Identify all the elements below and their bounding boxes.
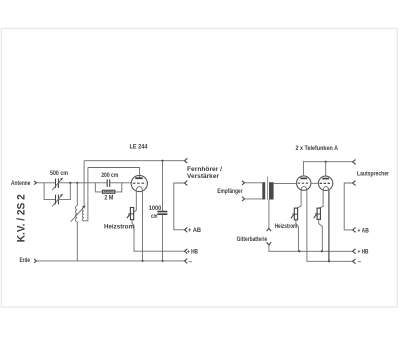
terminal anode right <box>353 160 356 165</box>
svg-text:Antenne: Antenne <box>11 180 31 187</box>
terminal +AB right <box>353 228 356 233</box>
svg-text:Fernhörer /: Fernhörer / <box>187 166 222 173</box>
wire rheostat to HB terminal <box>132 220 185 252</box>
wire grid-leak branch <box>95 183 122 192</box>
wire tube2 filament left leg <box>297 190 302 208</box>
wire secondary to grid <box>274 182 297 184</box>
inductor L2 reaction coil <box>82 207 84 221</box>
svg-text:200 cm: 200 cm <box>101 172 118 179</box>
svg-text:–: – <box>358 258 362 265</box>
svg-text:+ AB: + AB <box>188 227 201 234</box>
svg-text:K.V. / 2S 2: K.V. / 2S 2 <box>16 194 28 242</box>
terminal grid battery lower <box>267 242 272 245</box>
transformer T1 core <box>267 177 269 200</box>
wire phones bracket <box>174 183 185 230</box>
wire tube3 filament left leg <box>319 190 323 208</box>
svg-text:Heizstrom: Heizstrom <box>275 223 298 230</box>
svg-text:LE 244: LE 244 <box>130 143 148 150</box>
tube V2 filament <box>301 186 307 190</box>
wire coil L1 upper <box>76 183 78 206</box>
wire branch right up <box>58 183 70 200</box>
svg-text:Erde: Erde <box>20 257 31 264</box>
svg-text:500 cm: 500 cm <box>50 170 68 177</box>
tube V1 envelope <box>131 175 147 191</box>
capacitor C1 variable arrow <box>52 178 62 190</box>
wire earth minus line <box>37 260 185 262</box>
wire tube2 filament right leg <box>307 190 353 261</box>
transformer T1 primary <box>262 182 265 199</box>
wire rheostat R4 to HB line <box>319 219 323 251</box>
svg-text:Empfänger: Empfänger <box>217 188 243 195</box>
svg-text:1000: 1000 <box>149 205 162 212</box>
terminal phones bottom <box>185 181 188 186</box>
wire outer plate line to terminal <box>84 160 184 162</box>
wire antenna main to C1 <box>37 182 56 184</box>
svg-text:Lautsprecher: Lautsprecher <box>357 170 389 177</box>
terminal receiver top <box>242 181 245 185</box>
terminal earth arrow <box>34 259 36 263</box>
tube V1 anode <box>135 177 142 179</box>
capacitor C4 1000cm plates <box>157 212 167 215</box>
wire filament left leg <box>134 190 137 212</box>
terminal minus left <box>185 259 188 264</box>
svg-text:–: – <box>189 258 193 265</box>
terminal phones top <box>185 158 188 163</box>
node R3-HB <box>298 250 300 252</box>
wire tube2-tube3 grid link <box>311 182 319 184</box>
wire blocking cap upper <box>162 161 164 212</box>
terminal +HB right <box>353 249 356 254</box>
terminal receiver bottom <box>242 197 245 201</box>
capacitor C2 variable arrow <box>52 194 62 206</box>
resistor R1 2M <box>102 190 115 193</box>
wire anode top line right <box>303 162 352 176</box>
terminal antenna arrow <box>34 181 36 185</box>
terminal grid battery upper <box>267 228 272 231</box>
tube V2 envelope <box>297 176 311 190</box>
tube V3 grid <box>320 182 332 184</box>
svg-text:2 x Telefunken A: 2 x Telefunken A <box>296 145 339 152</box>
tube V2 grid <box>298 182 310 184</box>
node tube3-minus <box>328 260 330 262</box>
svg-text:Heizstrom: Heizstrom <box>104 223 134 230</box>
svg-text:Gitterbatterie: Gitterbatterie <box>237 236 268 243</box>
terminal +AB left <box>185 227 188 232</box>
wire speaker bracket <box>344 183 352 230</box>
wire receiver bottom <box>245 198 263 200</box>
wire secondary to grid battery <box>268 200 270 229</box>
wire plate supply riser <box>83 161 85 208</box>
tube V1 filament <box>136 187 142 191</box>
tube V1 grid <box>133 182 146 184</box>
node cap-minus <box>161 260 163 262</box>
svg-text:+ HB: + HB <box>187 248 198 255</box>
svg-text:cm: cm <box>151 213 158 220</box>
wire branch left down <box>44 183 55 200</box>
node coil tap <box>76 182 78 184</box>
svg-text:+ AB: + AB <box>358 227 369 234</box>
terminal minus right <box>353 259 356 264</box>
node filament-minus <box>141 260 143 262</box>
wire grid battery to HB line <box>269 245 353 251</box>
capacitor C1 500cm plates <box>56 179 59 189</box>
tube V3 envelope <box>318 176 332 190</box>
node branch-right <box>69 182 71 184</box>
rheostat R2 heizstrom <box>130 208 133 220</box>
wire anode top run <box>88 168 140 179</box>
capacitor C2 plates <box>56 195 59 205</box>
rheostat R4 heizstrom <box>317 208 320 219</box>
rheostat R2 arrow <box>127 215 130 219</box>
tube V3 filament <box>323 187 329 191</box>
wire anode drop to coil L2 bottom <box>84 168 88 222</box>
svg-text:2 M: 2 M <box>104 195 113 202</box>
terminal +HB left <box>185 249 188 254</box>
capacitor C3 200cm plates <box>107 179 110 187</box>
rheostat R3 arrow <box>291 215 294 219</box>
wire tube3 filament right leg <box>328 190 330 261</box>
svg-text:+ HB: + HB <box>358 249 369 256</box>
node blocking cap top <box>161 160 163 162</box>
inductor L1 tuning coil <box>76 206 78 222</box>
rheostat R3 heizstrom <box>294 208 297 220</box>
terminal speaker top <box>353 181 356 186</box>
wire blocking cap lower <box>162 215 164 261</box>
svg-text:Verstärker: Verstärker <box>187 173 219 180</box>
wire tube3 anode riser <box>325 162 327 176</box>
node R4-HB <box>321 250 323 252</box>
wire coil L1 to earth line <box>76 222 78 261</box>
variometer arrow <box>71 207 84 222</box>
tube V2 anode <box>300 177 307 179</box>
wire filament right leg to minus line <box>142 190 144 261</box>
wire grid segment <box>110 182 132 184</box>
tube V3 anode <box>322 178 329 180</box>
wire main C1 to C3 <box>58 182 107 184</box>
rheostat R4 arrow <box>314 215 317 219</box>
wire rheostat R3 to HB line <box>296 220 299 252</box>
node tube3 anode riser <box>325 161 327 163</box>
transformer T1 secondary <box>269 182 274 199</box>
wire receiver top <box>245 182 263 184</box>
